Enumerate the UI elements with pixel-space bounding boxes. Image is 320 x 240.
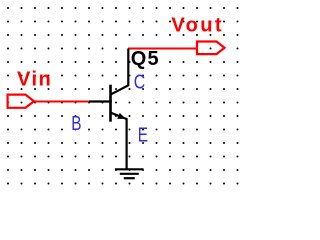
svg-text:B: B bbox=[71, 112, 81, 135]
svg-text:C: C bbox=[134, 69, 145, 93]
svg-text:Q5: Q5 bbox=[131, 48, 160, 70]
svg-text:Vout: Vout bbox=[171, 14, 224, 36]
svg-text:E: E bbox=[138, 123, 148, 146]
svg-text:Vin: Vin bbox=[17, 68, 52, 90]
